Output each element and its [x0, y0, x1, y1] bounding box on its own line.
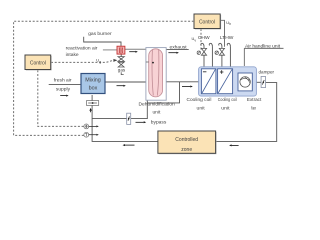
wire: dashed feedback from humidity sensor up to left control box [38, 70, 84, 127]
svg-text:box: box [89, 86, 98, 92]
burner B1: gas burner box [117, 46, 125, 54]
wheel pivot dot [152, 62, 154, 64]
arrow: return air leaving zone to left [123, 144, 135, 146]
svg-text:Dehumidification: Dehumidification [139, 102, 175, 108]
svg-text:fan: fan [251, 106, 256, 111]
damper D3 at AHU outlet [261, 76, 265, 87]
arrow: bypass flow [136, 121, 147, 123]
heating coil unit box [218, 69, 233, 94]
svg-text:Control: Control [199, 20, 215, 26]
svg-text:gas burner: gas burner [88, 31, 112, 37]
svg-text:fresh air: fresh air [54, 77, 72, 83]
cooling coil unit box [201, 69, 216, 94]
actuator for CHW valve [197, 51, 200, 54]
dehumidification unit box [146, 48, 166, 101]
svg-text:unit: unit [152, 109, 161, 115]
arrow: return air up into mixing box [89, 108, 91, 112]
wire: AHU fan outlet to damper and down to controlled zone [252, 81, 261, 83]
pipe: CHW supply with stub [201, 43, 204, 69]
arrow: reactivation air flow to wheel [129, 51, 138, 53]
wire: bypass duct with elbow joining process air line [92, 82, 179, 119]
svg-text:Controlled: Controlled [175, 137, 198, 143]
sensor S1: humidity sensor [84, 124, 89, 129]
wire: dehumidification unit to air handling unit duct [166, 81, 199, 83]
svg-text:zone: zone [181, 147, 192, 153]
pipe: CHW return with hook [209, 43, 212, 69]
wire: gas burner label leader [84, 37, 121, 46]
pipe: LTHW supply with stub [219, 43, 222, 69]
svg-text:h: h [229, 22, 231, 26]
wire: return riser from zone up to mixing box [92, 95, 158, 141]
svg-text:Control: Control [30, 61, 46, 67]
gas supply stub [121, 72, 124, 74]
valve V3 gas safety valve [118, 57, 124, 62]
gas pipe below burner [120, 54, 122, 57]
wire: exhaust duct from dehumidification unit [166, 48, 189, 50]
arrow: mixed air flow to dehumidifier [117, 85, 126, 87]
damper D1 below mixing box [87, 101, 99, 106]
valve V4 gas control valve [118, 62, 124, 67]
actuator for LTHW valve [215, 51, 218, 54]
wire: control signal u_h elbow from right control box to LTHW valve [220, 20, 224, 47]
svg-text:damper: damper [259, 70, 275, 75]
controlled zone box [158, 131, 217, 154]
fan F1: supply/extract fan box [238, 73, 252, 91]
svg-text:supply: supply [56, 87, 71, 93]
svg-text:Cooling coil: Cooling coil [187, 97, 212, 102]
svg-text:gas: gas [118, 67, 126, 72]
svg-text:LTHW: LTHW [220, 35, 234, 41]
arrow: fresh air flow [60, 95, 68, 97]
svg-text:unit: unit [221, 106, 230, 111]
wire: dashed control signal u_g from left control box to gas valve [51, 60, 113, 62]
wire: fresh air supply duct into mixing box [49, 83, 81, 85]
arrow: supply air into zone from right [229, 144, 239, 146]
damper D2 on bypass duct [127, 113, 131, 124]
control box (right) [194, 14, 221, 29]
wheel axle tick [146, 61, 149, 63]
wire: burner to wheel duct [125, 48, 146, 50]
svg-text:Extract: Extract [247, 97, 262, 102]
svg-text:Mixing: Mixing [85, 78, 101, 84]
wire: dashed feedback loop from T sensor to right control box [14, 21, 194, 135]
wire: reactivation air intake duct [103, 49, 117, 51]
svg-text:unit: unit [197, 106, 206, 111]
desiccant wheel W1 [149, 49, 163, 97]
arrow: humidity sampling point [89, 125, 99, 127]
air handling unit panel [199, 67, 257, 96]
control box (left) [25, 55, 52, 70]
svg-text:bypass: bypass [151, 120, 167, 126]
svg-text:intake: intake [66, 52, 79, 58]
sensor S2: temperature sensor [84, 132, 89, 137]
valve V2 on LTHW pipe [219, 48, 224, 55]
pipe: LTHW return with hook [227, 43, 230, 69]
arrow: temperature sampling point [89, 134, 99, 136]
wire: air handling unit label leader and underline [244, 47, 283, 49]
wire: dashed control signal u_v from right control box to CHW valve [200, 29, 202, 51]
wire: mixing box to dehumidification unit duct [105, 81, 146, 83]
arrow: supply air into AHU [182, 86, 193, 88]
svg-text:exhaust: exhaust [170, 45, 188, 51]
arrow: exhaust air flow [168, 52, 179, 54]
svg-text:v: v [194, 38, 196, 42]
svg-text:Cooling coil: Cooling coil [218, 97, 237, 102]
svg-text:g: g [99, 60, 101, 64]
mixing box [81, 74, 105, 94]
valve V1 on CHW pipe [201, 48, 206, 55]
svg-text:reactivation air: reactivation air [66, 45, 98, 51]
svg-text:Air handline unit: Air handline unit [245, 43, 281, 49]
svg-text:CHW: CHW [198, 35, 210, 41]
